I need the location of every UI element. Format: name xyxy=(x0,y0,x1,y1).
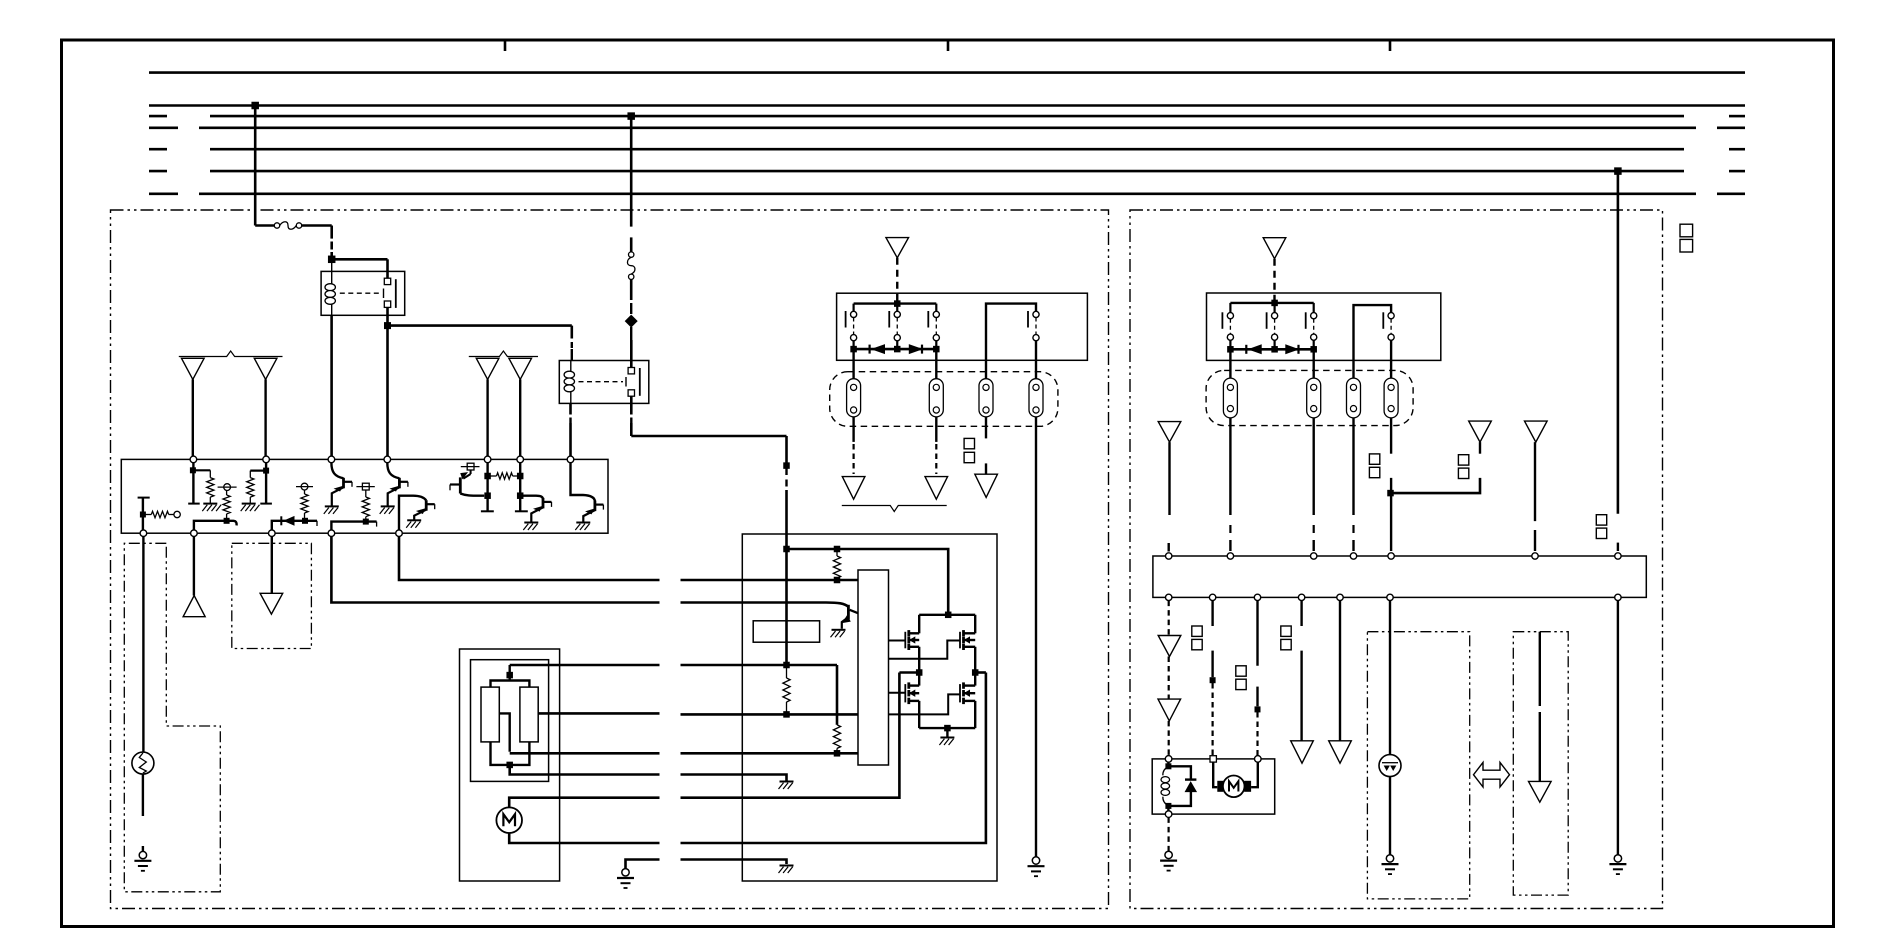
wire M4 source xyxy=(947,727,975,729)
bus wire 3 left stub xyxy=(149,115,167,118)
wire corner down xyxy=(330,226,333,239)
switch SW1a terminal bottom xyxy=(851,335,857,341)
wire col7 xyxy=(1617,601,1619,855)
wire row G7 right xyxy=(681,860,787,865)
junction S1 xyxy=(140,512,146,518)
wire K2 switch down xyxy=(630,396,633,414)
switch K3b bar xyxy=(1266,312,1268,329)
junction row C xyxy=(783,662,790,669)
connector strip xyxy=(858,570,889,765)
U1 bottom terminal 4 xyxy=(328,530,335,537)
transistor Q5 collector xyxy=(520,496,543,500)
junction A xyxy=(328,256,336,263)
U1 bottom terminal 3 xyxy=(269,530,276,537)
bus wire 7 xyxy=(199,193,1696,196)
wire col6 xyxy=(1389,601,1391,755)
transistor Q1 collector xyxy=(331,463,343,479)
terminal bar T5 xyxy=(481,510,494,512)
switch SW1a terminal top xyxy=(851,311,857,317)
wire K3 top xyxy=(1230,302,1313,304)
connector code C2 xyxy=(964,438,974,448)
strip bottom terminal 2 xyxy=(1209,594,1215,600)
resistor R11 xyxy=(833,725,840,749)
wire T1 down xyxy=(192,463,194,504)
resistor R6 xyxy=(365,490,367,497)
connector C1 (dashed) xyxy=(830,372,1058,427)
connector code C7 xyxy=(1192,626,1202,636)
connector pin C1-1 xyxy=(847,379,861,417)
diode bar xyxy=(854,348,937,351)
mosfet M1 xyxy=(907,630,910,636)
U1 top terminal 2 xyxy=(263,456,270,463)
connector arrow A7 xyxy=(886,238,909,258)
wire to ground G1 xyxy=(142,846,144,851)
wire row D xyxy=(538,712,659,715)
connector pin C1-3 xyxy=(979,379,993,417)
wire to arrow B3 xyxy=(1391,478,1481,493)
switch SW1b terminal top xyxy=(894,311,900,317)
connector pin C3-2 xyxy=(1307,378,1321,418)
wire T2 down xyxy=(265,463,267,504)
transistor Q2 collector xyxy=(387,463,399,479)
U1 bottom terminal 5 xyxy=(396,530,403,537)
connector arrow B4 xyxy=(1525,421,1548,442)
wire row G5 right xyxy=(681,673,900,798)
relay K2 terminal bottom xyxy=(628,390,634,396)
switch SW1a bar xyxy=(845,311,847,328)
wire col3 xyxy=(1256,601,1258,666)
mosfet M1 gate lead xyxy=(889,640,906,642)
resistor R12 xyxy=(786,665,788,678)
mosfet M4 xyxy=(962,682,965,688)
connector code C9 xyxy=(1281,626,1291,636)
transistor Q1 xyxy=(342,478,345,489)
switch SW1a stub2 xyxy=(852,341,854,349)
wire motor right xyxy=(1251,762,1258,787)
wire C1-4 down xyxy=(1035,417,1037,857)
junction T6a xyxy=(517,473,524,480)
chassis ground HB xyxy=(940,737,954,739)
junction B xyxy=(384,322,391,329)
junction act bottom xyxy=(1165,803,1171,809)
relay K2 contact tick xyxy=(625,377,627,387)
bus wire 7 right stub xyxy=(1717,193,1745,196)
junction HB gnd xyxy=(944,725,951,732)
wire dash xyxy=(630,303,632,314)
splice col3 xyxy=(1255,706,1261,712)
junction K3 M xyxy=(1271,346,1278,353)
U1 top terminal 5 xyxy=(484,456,491,463)
transistor Q6 xyxy=(594,501,597,512)
connector arrow B8 xyxy=(1329,741,1352,763)
junction feed xyxy=(945,612,952,619)
junction T1a xyxy=(190,467,196,473)
wire K2 coil to U1 pin7 xyxy=(569,403,572,414)
junction B4a xyxy=(363,519,369,525)
wire row A from U1 pin B5 xyxy=(399,537,660,581)
connector arrow B6 xyxy=(1158,699,1181,721)
transistor Q7 xyxy=(847,605,850,619)
wire A3 to U1 xyxy=(486,379,488,456)
connector code C10 xyxy=(1680,224,1693,237)
switch pack box xyxy=(837,293,1088,360)
wire junction to switch xyxy=(332,258,388,261)
splice col2 xyxy=(1210,677,1216,683)
connector pin C1-2 xyxy=(929,379,943,417)
switch K3b stub2 xyxy=(1273,340,1275,349)
wire S2 down xyxy=(1389,777,1391,855)
wire K1 switch down xyxy=(386,307,389,325)
resistor R10 xyxy=(834,546,841,553)
ground G6 xyxy=(1614,855,1621,862)
bulb L1 xyxy=(132,752,154,774)
connector arrow B7 xyxy=(1291,741,1314,763)
bus wire 2 xyxy=(149,104,1745,107)
connector arrow A5 xyxy=(193,537,195,596)
switch K3c terminal bottom xyxy=(1311,334,1317,340)
resistor R3 xyxy=(226,491,228,496)
wire SW1c down xyxy=(935,349,937,379)
switch SW1d wire xyxy=(986,304,1036,379)
actuator terminal 3 xyxy=(1255,756,1262,763)
actuator terminal 1 xyxy=(1165,756,1172,763)
ground G4 xyxy=(1165,851,1172,858)
switch K3c stub xyxy=(1313,303,1315,313)
switch K3b link xyxy=(1274,319,1276,334)
relay K1 contact bar xyxy=(395,279,397,308)
control unit U2 box xyxy=(742,534,997,881)
wire col3 dashed xyxy=(1256,712,1258,756)
bulb enclosure box (dash-dot) xyxy=(124,543,220,892)
chassis ground R2 xyxy=(203,503,217,505)
mosfet M3 xyxy=(907,682,910,688)
wire B2 hook xyxy=(194,521,237,530)
junction row D xyxy=(783,711,790,718)
tap P4 xyxy=(467,463,474,470)
relay K2 terminal top xyxy=(628,368,634,374)
wire row G5 motor top xyxy=(509,798,659,808)
wire row B from U1 pin B4 xyxy=(331,537,659,603)
diode D4 xyxy=(1245,345,1247,354)
resistor R5 xyxy=(304,490,306,494)
switch SW1d terminal top xyxy=(1033,311,1039,317)
connector pin C1-4 xyxy=(1029,379,1043,417)
connector arrow B5 xyxy=(1158,636,1181,657)
switch SW1d link xyxy=(1035,318,1037,335)
chassis ground row F xyxy=(780,781,794,783)
wire node V down xyxy=(785,436,788,466)
fuse F1 xyxy=(274,223,279,228)
wire pack top xyxy=(854,302,937,304)
switch SW1b terminal bottom xyxy=(894,335,900,341)
connector arrow A2 xyxy=(254,358,277,379)
transistor unit U1 box xyxy=(121,459,608,533)
wire row G7 xyxy=(626,860,660,869)
brace over A1 A2 xyxy=(179,351,283,357)
strip bottom terminal 5 xyxy=(1337,594,1343,600)
wire HB B link xyxy=(975,671,986,674)
wire T6 down xyxy=(519,463,521,512)
strip top terminal 4 xyxy=(1350,553,1356,559)
switch K3a link xyxy=(1229,319,1231,334)
connector C3 (dashed) xyxy=(1206,370,1413,425)
tap P2 xyxy=(301,483,308,490)
inline connector dot xyxy=(783,462,790,469)
wire into junction xyxy=(330,252,333,259)
switch K3b terminal bottom xyxy=(1272,334,1278,340)
resistor R8 xyxy=(481,687,499,742)
wire col2 xyxy=(1211,601,1213,626)
relay K1 contact tick xyxy=(383,289,385,299)
bus wire 3 right stub xyxy=(1729,115,1745,118)
mosfet M3 gate lead xyxy=(889,692,906,694)
strip bottom terminal 3 xyxy=(1254,594,1260,600)
wire row G6 motor bottom xyxy=(509,833,659,843)
terminal bar T2 xyxy=(260,503,272,505)
connector arrow B2 xyxy=(1158,422,1181,443)
wire V1 down xyxy=(785,549,788,665)
brace over A3 A4 xyxy=(469,351,538,357)
transistor Q3 collector xyxy=(399,496,426,530)
wire row G6 right xyxy=(681,673,986,844)
strip top terminal 6 xyxy=(1532,553,1538,559)
wire R8 R9 bottoms xyxy=(491,742,530,765)
relay K1 terminal top xyxy=(384,278,390,284)
wire B3 down xyxy=(1479,442,1481,454)
mosfet M2 drain link xyxy=(948,614,975,616)
connector pin C3-4 xyxy=(1384,378,1398,418)
wire C1-3 down xyxy=(985,417,987,439)
diode D2 xyxy=(868,345,870,354)
switch K3d link xyxy=(1390,319,1392,334)
component block xyxy=(753,621,819,642)
mosfet M2 gate lead xyxy=(889,641,961,659)
wire B2 down xyxy=(1168,442,1170,515)
connector arrow A10 xyxy=(975,474,998,497)
fusible link F2 xyxy=(629,252,634,257)
connector arrow A9 xyxy=(925,477,948,500)
wire actuator to ground xyxy=(1167,817,1169,851)
bus wire 4 right stub xyxy=(1717,127,1745,130)
sensor inner box xyxy=(471,660,549,782)
switch K3a terminal bottom xyxy=(1227,334,1233,340)
terminal bar T1 xyxy=(188,503,200,505)
connector code C4 xyxy=(1369,454,1379,464)
wire fuse to corner xyxy=(302,224,332,227)
wire K3d down xyxy=(1390,340,1392,378)
switch SW1a link xyxy=(853,318,855,335)
chassis ground R4 xyxy=(242,503,256,505)
junction diode L xyxy=(850,346,857,353)
strip bottom terminal 6 xyxy=(1387,594,1393,600)
resistor R1 xyxy=(143,514,151,516)
bus wire 5 right stub xyxy=(1729,148,1745,151)
junction act top xyxy=(1167,762,1169,766)
transistor Q4 xyxy=(470,470,472,474)
ground G5 xyxy=(1386,855,1393,862)
wire drop from bus3 xyxy=(630,116,633,227)
wire col1 dashed2 xyxy=(1168,657,1170,700)
junction M5 bottom xyxy=(506,762,513,769)
U1 bottom terminal 2 xyxy=(191,530,198,537)
junction M5 top xyxy=(509,665,511,675)
switch SW1c stub xyxy=(935,304,937,312)
switch enclosure (dash-dot) xyxy=(1367,632,1469,899)
wire into K2 xyxy=(630,340,633,368)
mosfet M4 gate lead xyxy=(889,694,961,714)
wire C3-3 down xyxy=(1352,418,1354,515)
switch K3d wire xyxy=(1354,305,1392,378)
wire row B right xyxy=(681,603,849,607)
wire row F xyxy=(510,765,660,775)
wire row D right xyxy=(681,713,859,716)
junction K3 R xyxy=(1310,346,1317,353)
switch K3b stub xyxy=(1273,303,1275,313)
switch SW1a stub xyxy=(852,304,854,312)
junction hook xyxy=(224,518,230,524)
relay pack K3 box xyxy=(1207,293,1441,360)
wire SW1a down xyxy=(852,349,854,379)
junction D1 xyxy=(302,518,308,524)
transistor Q6 collector xyxy=(571,463,595,501)
relay K1 box xyxy=(321,271,405,315)
strip top terminal 3 xyxy=(1311,553,1317,559)
transistor Q4 collector xyxy=(460,494,484,496)
bus wire 4 xyxy=(199,127,1696,130)
actuator terminal 4 xyxy=(1165,811,1172,818)
connector code C6 xyxy=(1596,515,1606,525)
strip bottom terminal 4 xyxy=(1298,594,1304,600)
connector pin C3-3 xyxy=(1347,378,1361,418)
switch SW1b stub xyxy=(896,304,898,312)
wire R8 to row E xyxy=(499,713,509,751)
junction T5b xyxy=(484,492,491,499)
wire HB A link xyxy=(899,671,919,674)
wire down to relay switch xyxy=(386,259,389,281)
switch SW1c stub2 xyxy=(935,341,937,349)
transistor Q2 xyxy=(398,478,401,489)
wire resume xyxy=(630,237,633,251)
wire row E xyxy=(510,752,660,755)
junction HB A xyxy=(916,669,923,676)
wire dash2 xyxy=(630,327,632,340)
wire below fusible link xyxy=(630,280,633,301)
bus wire 6 left stub xyxy=(149,170,167,173)
bus wire 7 left stub xyxy=(149,193,178,196)
U1 top terminal 3 xyxy=(328,456,335,463)
motor M5 xyxy=(496,807,522,833)
mosfet M1 drain link xyxy=(919,614,948,616)
strip top terminal 1 xyxy=(1166,553,1172,559)
wire resume xyxy=(1617,543,1619,551)
U1 top terminal 1 xyxy=(190,456,197,463)
switch K3a bar xyxy=(1221,312,1223,329)
motor M6 xyxy=(1223,776,1245,798)
switch K3b terminal top xyxy=(1272,313,1278,319)
connector arrow A4 xyxy=(509,358,532,379)
wire col2 dashed xyxy=(1211,683,1213,756)
wire col5 xyxy=(1339,601,1341,741)
frame tick 2 xyxy=(947,40,950,51)
wire B1 to bulb xyxy=(142,537,144,753)
wire to relay K2 xyxy=(388,324,572,327)
junction row E b xyxy=(836,748,838,753)
bus wire 6 xyxy=(210,170,1684,173)
wire to ground xyxy=(946,728,948,736)
tap P1 xyxy=(224,484,231,491)
wire T5 down xyxy=(486,463,488,512)
frame tick 3 xyxy=(1389,40,1392,51)
diode D5 xyxy=(1286,345,1298,354)
switch SW1c link xyxy=(935,318,937,335)
strip bottom terminal 7 xyxy=(1615,594,1621,600)
junction W xyxy=(1387,490,1394,497)
tap P3 xyxy=(362,483,369,490)
junction diode M xyxy=(894,346,901,353)
junction T2a xyxy=(263,468,269,474)
bus wire 3 xyxy=(210,115,1684,118)
relay K1 terminal bottom xyxy=(384,301,390,307)
wire to fuse xyxy=(255,224,274,227)
wire B4 up xyxy=(331,522,376,530)
switch SW1c bar xyxy=(927,311,929,328)
frame tick 1 xyxy=(504,40,507,51)
chassis ground row G7 xyxy=(780,865,794,867)
junction bus3 xyxy=(627,112,635,120)
wire row F right xyxy=(681,775,787,782)
switch SW1c terminal top xyxy=(933,311,939,317)
wire K1 coil to U1 pin3 xyxy=(330,315,333,456)
resistor R4 xyxy=(247,478,254,498)
relay K2 coil xyxy=(570,361,572,372)
junction bus6 xyxy=(1614,167,1622,175)
wire feed top xyxy=(787,549,949,615)
U1 top terminal 6 xyxy=(517,456,524,463)
resistor R2 xyxy=(207,478,214,498)
strip top terminal 5 xyxy=(1388,553,1394,559)
wire motor left xyxy=(1213,762,1217,787)
wire SW1d down xyxy=(1035,341,1037,379)
connector arrow A8 xyxy=(842,477,865,500)
connector arrow B3 xyxy=(1469,421,1492,442)
solenoid coil L2 xyxy=(1163,766,1169,775)
switch SW1d terminal bottom xyxy=(1033,335,1039,341)
wire drop from bus6 xyxy=(1617,171,1620,514)
junction diode R xyxy=(933,346,940,353)
wire to R4 xyxy=(250,470,266,472)
strip bottom terminal 1 xyxy=(1166,594,1172,600)
switch K3a stub xyxy=(1229,303,1231,313)
bus bar strip xyxy=(1153,556,1646,597)
pressure switch S2 xyxy=(1379,755,1401,777)
transistor Q3 xyxy=(425,500,428,511)
wire row C corner down xyxy=(836,665,839,725)
connector arrow B1 xyxy=(1263,238,1286,259)
wire junction to coil xyxy=(331,259,333,284)
arrow enclosure 2 (dash-dot) xyxy=(1513,632,1568,895)
strip top terminal 7 xyxy=(1615,553,1621,559)
wire B1 down dashed xyxy=(1273,259,1275,301)
wire C1-1 down xyxy=(852,417,854,442)
resistor R9 xyxy=(520,687,538,742)
wire drop from bus2 xyxy=(254,106,257,226)
relay K1 coil xyxy=(325,284,335,291)
wire down to U1 pin4 xyxy=(386,326,389,457)
junction V1 xyxy=(783,546,790,553)
switch SW1b bar xyxy=(888,311,890,328)
ground G3 xyxy=(1032,857,1039,864)
wire A2 to U1 xyxy=(264,379,266,456)
